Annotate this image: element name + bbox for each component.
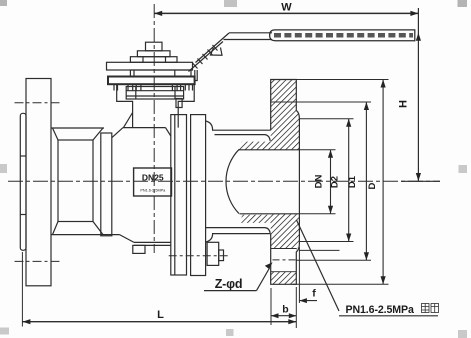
stop plate bbox=[107, 62, 193, 70]
mystery f upper ref line bbox=[299, 249, 339, 251]
section hatch upper flange bbox=[271, 80, 300, 150]
section bore bottom bbox=[240, 213, 300, 215]
studs bbox=[114, 84, 193, 90]
svg-text:D: D bbox=[367, 182, 378, 189]
body top edge bbox=[123, 127, 166, 129]
dimension H line bbox=[401, 8, 440, 181]
D dimension line bbox=[381, 80, 386, 285]
mounting plate bbox=[108, 77, 195, 85]
body top chamfers bbox=[112, 128, 171, 138]
stem tier3 bbox=[130, 57, 177, 63]
L dimension bbox=[22, 252, 296, 327]
section bore top bbox=[239, 149, 300, 151]
left flange bolt centerline upper bbox=[15, 102, 63, 104]
section hatch bottom block bbox=[271, 272, 297, 285]
handle bar bbox=[224, 33, 273, 40]
left neck outer bottom bbox=[51, 234, 120, 236]
D1 lower ext bbox=[296, 259, 371, 261]
bonnet left profile bbox=[117, 84, 133, 127]
PN label bbox=[297, 220, 439, 316]
svg-text:H: H bbox=[398, 100, 410, 108]
D2 lower ext bbox=[299, 241, 353, 243]
body flange plate B bbox=[191, 115, 206, 276]
svg-text:PN1.6-2.5MPa: PN1.6-2.5MPa bbox=[346, 304, 414, 316]
stop plate end stub bbox=[195, 70, 197, 81]
svg-text:f: f bbox=[312, 288, 316, 300]
svg-text:L: L bbox=[157, 309, 164, 321]
ball arc bbox=[226, 149, 239, 213]
weld ring bbox=[101, 133, 112, 236]
svg-text:DN25: DN25 bbox=[142, 173, 164, 183]
packing row bbox=[130, 70, 191, 77]
stem centerline bbox=[153, 4, 155, 253]
Z-phi-d label bbox=[204, 262, 273, 291]
stem tier2 bbox=[137, 51, 170, 57]
D2 dimension line bbox=[346, 119, 351, 242]
svg-text:b: b bbox=[282, 304, 288, 316]
svg-text:W: W bbox=[281, 2, 292, 14]
bolt hole centerline lower bbox=[273, 259, 297, 261]
right neck top outer line bbox=[206, 121, 271, 130]
flats chamfers bbox=[53, 128, 104, 235]
b dimension bbox=[271, 287, 296, 328]
dimension W line bbox=[154, 11, 418, 16]
DN lower ext bbox=[299, 213, 335, 215]
bolt hole slot edges bbox=[271, 248, 297, 250]
left flange plate bbox=[26, 79, 51, 286]
side bolt centerline bbox=[169, 255, 229, 257]
section hatch lower flange mid bbox=[271, 214, 300, 251]
right neck bottom outer line bbox=[206, 234, 271, 242]
stem top nut bbox=[146, 42, 163, 51]
svg-text:Z-φd: Z-φd bbox=[215, 277, 243, 291]
DN dimension line bbox=[328, 150, 333, 214]
left flange bolt centerline lower bbox=[15, 260, 63, 262]
left flange raised face bbox=[20, 113, 26, 250]
f dimension bbox=[299, 247, 317, 303]
D upper ext bbox=[296, 79, 388, 81]
grip texture bbox=[274, 33, 413, 38]
D1 dimension line bbox=[364, 102, 369, 260]
left neck outer top bbox=[51, 127, 104, 129]
body bottom chamfer and double bottom bbox=[120, 235, 171, 246]
section hatch lower neck wall bbox=[240, 215, 271, 223]
packing box bbox=[126, 87, 183, 100]
handle arm bbox=[189, 33, 230, 72]
side bolt head bbox=[207, 242, 219, 265]
DN25 name plate bbox=[134, 168, 172, 196]
DN upper ext bbox=[299, 149, 335, 151]
right neck top fillet ring line bbox=[215, 135, 271, 141]
bonnet right profile bbox=[178, 84, 194, 127]
bonnet flare left bbox=[124, 113, 133, 128]
pipe axis centerline bbox=[8, 180, 440, 182]
body flange plate A bbox=[171, 115, 187, 275]
D2 upper ext bbox=[299, 118, 353, 120]
section hatch upper neck wall bbox=[239, 142, 271, 150]
plate right step bbox=[176, 99, 182, 108]
handle grip capsule bbox=[270, 30, 415, 41]
handle arm knurl dashes bbox=[193, 45, 218, 69]
right neck bottom fillet ring line bbox=[206, 228, 271, 234]
svg-text:D2: D2 bbox=[330, 176, 341, 188]
D1 upper ext crossing flange bbox=[271, 101, 371, 103]
D lower ext bbox=[293, 283, 389, 285]
side bolt stud bbox=[219, 250, 224, 261]
wrench flats rect bbox=[58, 140, 93, 222]
svg-text:DN: DN bbox=[314, 175, 325, 189]
drain boss bbox=[133, 245, 145, 253]
section flange outline bbox=[271, 80, 300, 285]
svg-text:PN1.6-2.5MPa: PN1.6-2.5MPa bbox=[140, 189, 166, 193]
handle stop tab bbox=[211, 48, 223, 56]
svg-text:D1: D1 bbox=[347, 175, 358, 188]
